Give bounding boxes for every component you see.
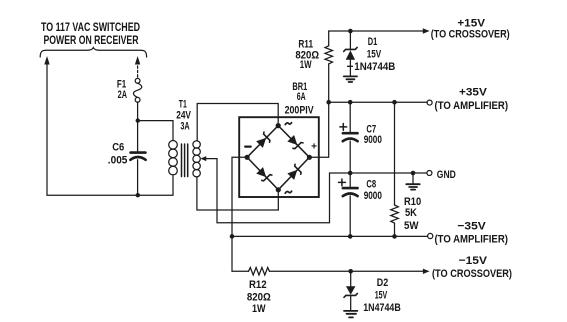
svg-text:C6: C6 (112, 142, 124, 154)
svg-text:1N4744B: 1N4744B (363, 302, 401, 314)
svg-text:6A: 6A (297, 91, 306, 103)
svg-text:15V: 15V (375, 290, 388, 302)
svg-text:1N4744B: 1N4744B (354, 61, 395, 73)
svg-text:1W: 1W (300, 59, 312, 71)
svg-text:1W: 1W (252, 303, 266, 315)
svg-text:15V: 15V (367, 49, 382, 61)
svg-text:+35V: +35V (459, 86, 487, 98)
svg-text:(TO AMPLIFIER): (TO AMPLIFIER) (434, 234, 508, 246)
svg-text:+: + (311, 142, 317, 153)
svg-text:D1: D1 (368, 36, 378, 48)
svg-text:820Ω: 820Ω (247, 292, 271, 304)
svg-text:R12: R12 (249, 279, 267, 291)
svg-text:5K: 5K (405, 207, 417, 219)
svg-text:3A: 3A (180, 120, 190, 132)
svg-text:9000: 9000 (364, 134, 382, 146)
svg-text:GND: GND (437, 169, 456, 181)
svg-text:.005: .005 (108, 155, 128, 167)
svg-text:9000: 9000 (364, 190, 382, 202)
svg-text:(TO CROSSOVER): (TO CROSSOVER) (432, 268, 512, 280)
svg-text:5W: 5W (404, 220, 419, 232)
svg-text:−35V: −35V (457, 220, 486, 232)
svg-text:2A: 2A (118, 89, 128, 101)
svg-text:D2: D2 (377, 277, 388, 289)
svg-text:200PIV: 200PIV (285, 104, 314, 116)
svg-text:−15V: −15V (459, 255, 488, 267)
svg-text:(TO AMPLIFIER): (TO AMPLIFIER) (435, 100, 509, 112)
svg-text:+15V: +15V (457, 17, 485, 29)
svg-text:(TO CROSSOVER): (TO CROSSOVER) (431, 29, 510, 41)
svg-text:C8: C8 (366, 179, 376, 191)
svg-text:POWER ON RECEIVER: POWER ON RECEIVER (44, 33, 139, 47)
